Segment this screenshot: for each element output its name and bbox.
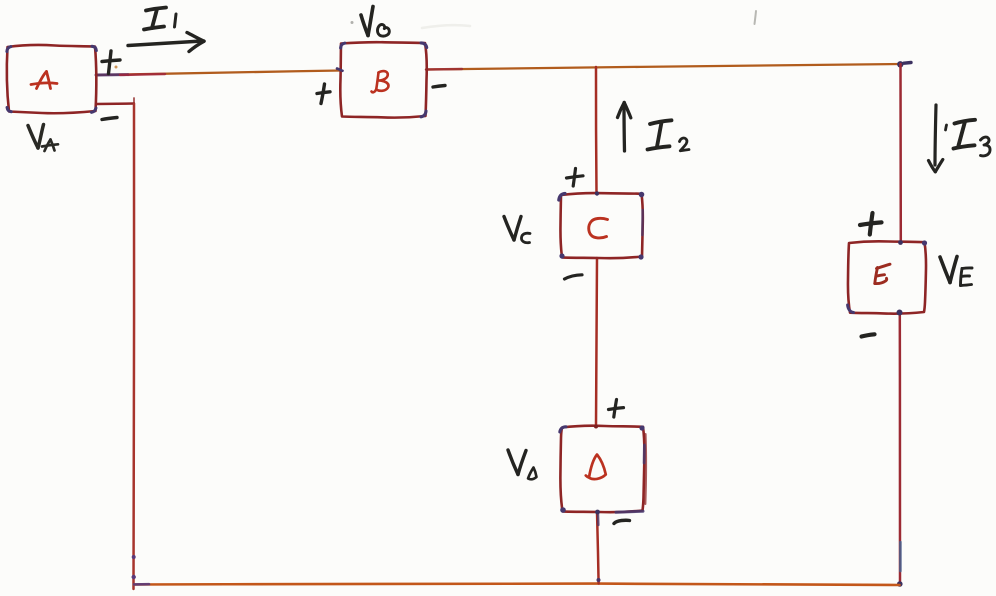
box C <box>559 191 645 259</box>
label I_3 <box>946 120 991 156</box>
minus below C <box>565 275 583 279</box>
plus above D <box>609 400 624 418</box>
arrow I_1 <box>128 33 204 52</box>
letter E (in box E) <box>875 264 890 283</box>
paper speck: dot near V_B <box>351 21 354 24</box>
minus at B <box>433 86 445 88</box>
wire: right vertical lower (E bottom to bottom-right corner) <box>899 312 902 584</box>
minus below D <box>614 520 630 523</box>
box B <box>337 42 427 117</box>
wire: bottom wire <box>134 584 900 585</box>
label I_2 <box>648 120 690 151</box>
node: top-right junction dot <box>897 61 903 67</box>
wire: top wire from B to top-right corner <box>426 64 901 70</box>
wire: left vertical down to bottom-left corner <box>132 104 135 589</box>
wire: middle vertical from top wire to C top <box>595 67 598 193</box>
paper speck: gray tick top right <box>755 11 757 24</box>
plus at A <box>102 51 120 74</box>
letter A (in box A) <box>31 72 57 89</box>
paper speck: orange dot near plus A <box>115 66 118 69</box>
box A <box>7 45 97 113</box>
label V_E <box>940 257 972 286</box>
arrow I_3 <box>929 105 943 172</box>
letter D (in box D) <box>586 455 606 480</box>
label V_B <box>361 7 389 37</box>
label V_D <box>508 450 537 479</box>
minus below E <box>862 334 875 336</box>
label V_A <box>28 125 58 152</box>
box E <box>848 240 928 315</box>
wire: middle vertical C bottom to D top <box>596 258 597 425</box>
wire: middle vertical D bottom to bottom wire <box>597 512 599 584</box>
wire: top stub from A to main top wire (purple overdraw) <box>96 71 341 76</box>
plus above E <box>860 213 882 235</box>
wire: lower stub from A to left vertical <box>96 98 134 104</box>
arrow I_2 <box>618 103 631 152</box>
letter C (in box C) <box>589 218 608 238</box>
node: bottom-right corner blob <box>897 581 903 587</box>
label V_C <box>504 217 530 243</box>
paper smudge: faint gray line <box>422 25 470 28</box>
plus at B <box>317 84 330 104</box>
letter B (in box B) <box>372 71 389 92</box>
box D <box>560 425 646 526</box>
minus at A <box>102 118 117 120</box>
wire: right vertical upper (corner to E top) <box>899 64 902 241</box>
label I_1 <box>144 8 176 30</box>
plus above C <box>567 169 584 187</box>
